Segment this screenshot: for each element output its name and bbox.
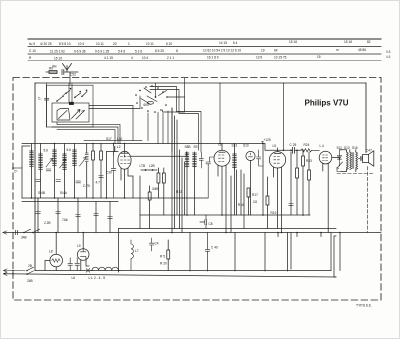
diode element D1	[338, 150, 342, 166]
svg-text:15 10: 15 10	[54, 56, 62, 60]
resistor R5	[167, 240, 170, 271]
capacitor C37	[289, 204, 293, 206]
tube V2 grid dashes	[219, 155, 225, 161]
wire detector feed vertical	[283, 83, 285, 150]
svg-text:L8: L8	[49, 250, 53, 254]
svg-text:10 4: 10 4	[142, 56, 148, 60]
svg-text:9 6 9 1 25: 9 6 9 1 25	[95, 49, 109, 53]
resistor R22	[296, 150, 299, 215]
wire x340 drop	[339, 233, 341, 271]
svg-text:S11: S11	[337, 146, 343, 150]
svg-text:2.2B: 2.2B	[44, 221, 51, 225]
tube V2 top wire	[221, 144, 223, 151]
wire x291 drop	[290, 233, 292, 270]
svg-text:34B: 34B	[21, 236, 27, 240]
capacitor C16	[46, 169, 51, 171]
switch contact dots	[56, 88, 87, 102]
output transformer core	[353, 153, 354, 169]
rectifier anode bar	[81, 249, 86, 252]
table mid line 2	[28, 53, 381, 55]
oscillator padder oval	[148, 101, 154, 104]
resistor R1	[92, 144, 95, 199]
capacitor C8	[200, 215, 207, 229]
wire padder drop	[163, 78, 185, 112]
wire S17-L10 row	[84, 140, 142, 142]
resistor R11	[157, 173, 160, 183]
svg-text:Philips V7U: Philips V7U	[305, 99, 349, 108]
coil L7	[131, 240, 133, 271]
corner wire x331	[330, 233, 332, 271]
tube V2 UCH21 envelope	[214, 150, 230, 166]
wire aerial column	[22, 146, 30, 198]
coil L2	[114, 144, 116, 156]
svg-text:5 2 6: 5 2 6	[135, 49, 142, 53]
svg-text:C 10: C 10	[29, 49, 36, 53]
main signal bus	[22, 144, 284, 151]
border tap Cb	[12, 167, 22, 169]
svg-text:C 40: C 40	[211, 246, 218, 250]
wire LTB link	[141, 169, 157, 171]
wire osc loop lower	[150, 90, 199, 151]
wire x190 drop	[189, 233, 191, 272]
svg-text:10 11: 10 11	[96, 42, 104, 46]
antenna symbol	[63, 64, 72, 73]
table mid line 1	[28, 46, 381, 48]
tube V2 pins	[218, 165, 226, 232]
svg-text:L7: L7	[135, 249, 139, 253]
capacitor C4	[150, 238, 154, 251]
svg-text:S12: S12	[344, 146, 350, 150]
gang box bottom wires	[52, 122, 120, 144]
svg-text:2B: 2B	[28, 264, 32, 268]
coil S4	[63, 144, 67, 199]
svg-text:14 15: 14 15	[219, 41, 227, 45]
tube V5 pins	[323, 163, 328, 232]
wire osc to padder	[167, 96, 185, 98]
electrolytic C45	[75, 258, 79, 271]
wire AVC column 2	[57, 198, 59, 233]
wire R11 drop	[158, 168, 160, 198]
trimmer arrow C2	[60, 160, 67, 169]
gang box output wires right	[89, 96, 140, 141]
tube V1 top wire	[124, 144, 126, 158]
rectifier pins	[81, 258, 89, 270]
svg-text:S/4A: S/4A	[60, 191, 68, 195]
svg-text:S13: S13	[232, 144, 238, 148]
svg-text:S8B: S8B	[185, 145, 191, 149]
wire x235 drop	[234, 233, 236, 272]
coil S5	[73, 144, 77, 199]
svg-text:9.8: 9.8	[386, 50, 391, 54]
speaker box	[363, 154, 369, 162]
trimmer arrow C3	[80, 158, 87, 167]
wire IF feed vertical	[219, 83, 221, 144]
tube V1 UCH21 envelope	[118, 151, 131, 169]
svg-text:4/ 20 25: 4/ 20 25	[40, 42, 52, 46]
svg-text:L2B: L2B	[149, 164, 155, 168]
electrolytic C44	[68, 258, 72, 271]
svg-text:5 4 6: 5 4 6	[118, 49, 125, 53]
svg-text:10 4: 10 4	[78, 42, 84, 46]
tube V1 cathode pins	[121, 169, 133, 199]
svg-text:5.6: 5.6	[44, 149, 49, 153]
tuning assembly shield box	[47, 85, 94, 127]
capacitor C14	[94, 214, 99, 216]
svg-text:№ 5: № 5	[29, 42, 35, 46]
inner frame top	[35, 82, 366, 84]
trimmer arrow C1	[46, 159, 53, 168]
resistor R23	[302, 150, 305, 215]
wire band column 3	[176, 120, 178, 215]
wire AVC column 4	[95, 202, 97, 233]
svg-text:R 20: R 20	[160, 262, 167, 266]
ballast lamp envelope	[50, 254, 63, 267]
capacitor C9	[76, 181, 81, 183]
resistor R12	[162, 173, 165, 183]
tube V1 grid dashes	[121, 157, 130, 164]
output transformer secondary winding	[356, 152, 358, 170]
svg-text:L6: L6	[72, 276, 76, 280]
inner frame left	[34, 83, 36, 271]
transformer top wires	[340, 150, 356, 152]
capacitor C7	[56, 180, 61, 182]
oscillator band switch contact dots	[135, 85, 168, 113]
left ground bus lower	[22, 201, 118, 203]
svg-text:R16: R16	[238, 203, 244, 207]
svg-text:L9: L9	[77, 244, 81, 248]
wire choke to rail	[91, 270, 120, 272]
wire R12 drop	[163, 168, 165, 215]
svg-text:S/4B: S/4B	[38, 191, 45, 195]
tube V5 anode wire right	[332, 157, 340, 159]
tick x321	[320, 233, 322, 237]
gang drive blob	[69, 102, 73, 104]
svg-text:12 62 10 54 2 5 10 12 6 10: 12 62 10 54 2 5 10 12 6 10	[203, 49, 241, 53]
wire AVC column 1	[37, 198, 39, 233]
svg-text:R0: R0	[49, 67, 53, 71]
wire det column	[237, 170, 245, 229]
svg-text:C30: C30	[106, 171, 112, 175]
wavechange switch wipers (upper-left)	[57, 91, 87, 102]
svg-text:600: 600	[144, 103, 150, 107]
svg-text:5.6: 5.6	[67, 148, 72, 152]
output transformer primary return	[350, 152, 352, 170]
speaker cone	[369, 151, 374, 166]
tube V3 pin	[250, 161, 252, 215]
capacitor C10	[99, 176, 104, 178]
capacitor C12	[56, 212, 61, 214]
capacitor C20	[257, 150, 263, 166]
mains switch contact 2	[27, 271, 34, 274]
wire osc drop 5	[147, 113, 149, 141]
svg-text:15 16: 15 16	[289, 40, 297, 44]
antenna lead-in wire	[46, 72, 78, 84]
output transformer primary winding	[347, 152, 349, 170]
svg-text:7A6: 7A6	[62, 218, 68, 222]
wire osc loop upper	[150, 87, 201, 153]
wire osc drop 1	[157, 113, 159, 144]
IF1 coil S8B	[185, 152, 189, 215]
svg-text:2 1 1: 2 1 1	[167, 56, 174, 60]
coil S1	[30, 144, 34, 199]
tube V4 grid dashes	[274, 156, 280, 163]
arrow +125	[262, 142, 264, 144]
inner frame right	[365, 83, 367, 153]
svg-text:R24: R24	[304, 143, 310, 147]
resistor R17	[247, 188, 250, 215]
feedback box left wire	[118, 229, 120, 273]
bottom rail upper	[35, 270, 331, 272]
tube V3 diode envelope	[246, 151, 255, 160]
svg-text:13 9: 13 9	[256, 55, 262, 59]
bus main long	[3, 232, 381, 234]
mains switch dots	[12, 270, 28, 275]
svg-text:C8: C8	[209, 222, 213, 226]
svg-text:C47: C47	[366, 148, 372, 152]
svg-text:16 1 8 9: 16 1 8 9	[207, 56, 219, 60]
IF1 coil S9	[193, 152, 197, 215]
table bottom line	[28, 60, 381, 62]
ballast lamp base tick	[55, 267, 57, 271]
wire osc drop 2	[162, 114, 164, 144]
gram input arrow	[3, 231, 7, 234]
svg-text:S10: S10	[243, 144, 249, 148]
rectifier cathode hook	[81, 257, 86, 259]
wire band column 5	[181, 158, 183, 233]
tuning gang rotor plate	[57, 109, 70, 121]
svg-text:m: m	[336, 48, 339, 52]
capacitor C5	[36, 180, 41, 182]
coil S3	[53, 144, 57, 199]
svg-text:4.6: 4.6	[386, 55, 391, 59]
mains terminal arrows	[4, 269, 26, 276]
svg-text:4 1 15: 4 1 15	[104, 56, 113, 60]
svg-text:R19: R19	[271, 211, 277, 215]
tube V4 top wire	[277, 148, 279, 152]
contact dots gram	[23, 232, 34, 234]
dashed speaker frame horizontal	[337, 173, 374, 175]
tube V5 envelope	[319, 151, 332, 164]
svg-text:L1- 2 - 4 - 5: L1- 2 - 4 - 5	[89, 276, 106, 280]
bottom rail lower	[4, 274, 337, 277]
coil S2	[39, 144, 43, 199]
wire switch to lamp	[45, 261, 50, 271]
speaker coupling capacitor C47	[358, 156, 362, 160]
ballast lamp filament	[52, 259, 60, 262]
wire det column b	[231, 170, 241, 233]
junction dots main bus	[54, 143, 264, 145]
svg-text:TYP.6.6.6.: TYP.6.6.6.	[356, 304, 372, 308]
svg-text:+125: +125	[264, 138, 271, 142]
wire x287 drop	[287, 233, 289, 272]
svg-text:6 4: 6 4	[233, 41, 238, 45]
svg-text:64: 64	[274, 48, 278, 52]
tube V2 grid cap wire	[206, 157, 214, 198]
capacitor C gram	[16, 230, 18, 234]
corner wire x334	[334, 236, 336, 277]
svg-text:L10: L10	[117, 137, 123, 141]
svg-text:R13: R13	[176, 190, 182, 194]
svg-text:C52: C52	[70, 73, 76, 77]
wire AF coupling	[262, 144, 264, 216]
capacitor C40	[205, 233, 209, 272]
capacitor C15	[108, 217, 113, 219]
resistor R19	[266, 177, 269, 229]
tube V4 anode bar	[275, 153, 281, 155]
svg-text:24B: 24B	[27, 279, 33, 283]
capacitor C17	[199, 152, 203, 168]
bus heater	[119, 228, 337, 230]
junction dots detector	[283, 150, 304, 152]
wire screen column	[290, 152, 292, 215]
wire band from switch column 1	[171, 108, 173, 233]
svg-text:S16: S16	[352, 146, 358, 150]
svg-text:S17: S17	[106, 137, 112, 141]
resistor R13	[148, 186, 151, 229]
left ground bus	[22, 197, 208, 199]
tuning gang box	[52, 103, 89, 122]
margin note right	[386, 50, 391, 59]
wire band column 4	[179, 150, 181, 229]
svg-text:15: 15	[317, 55, 321, 59]
tube V4 pins	[274, 167, 282, 233]
svg-text:4: 4	[131, 56, 133, 60]
table row 1 values	[29, 40, 371, 46]
svg-text:C6: C6	[253, 200, 257, 204]
svg-text:10 11: 10 11	[146, 42, 154, 46]
svg-text:R23: R23	[306, 159, 312, 163]
trimmer arrow 1	[72, 110, 81, 119]
contact dot LTB	[145, 169, 154, 171]
svg-text:C 25: C 25	[290, 143, 297, 147]
svg-text:45 86: 45 86	[358, 48, 366, 52]
wire x265 drop	[264, 233, 266, 272]
ground bus dots	[31, 197, 126, 199]
wire band column 6	[184, 162, 186, 215]
svg-text:20: 20	[113, 42, 117, 46]
capacitor C11	[36, 212, 41, 214]
svg-text:L5: L5	[273, 144, 277, 148]
svg-text:8 5 25: 8 5 25	[155, 49, 164, 53]
mains switch contact 1	[27, 267, 34, 270]
switch gram	[24, 229, 40, 232]
wire band column 2	[174, 116, 176, 229]
wire switch feed vertical	[155, 83, 157, 97]
svg-text:C.75: C.75	[83, 184, 90, 188]
capacitor C30	[111, 155, 116, 198]
capacitor C13	[76, 215, 81, 217]
wire osc drop 4	[171, 108, 173, 152]
table top line	[28, 38, 381, 40]
svg-text:S9: S9	[194, 145, 198, 149]
svg-text:L 4: L 4	[320, 144, 325, 148]
svg-text:6 10: 6 10	[166, 42, 172, 46]
transformer bottom wires	[341, 169, 356, 172]
trimmer arrow 2	[76, 111, 85, 120]
dashed speaker frame vertical	[367, 167, 369, 233]
wire AVC column 5	[109, 202, 111, 233]
capacitor Ca	[45, 83, 49, 127]
tick x278	[277, 233, 279, 237]
resistor R0	[49, 71, 57, 74]
rectifier tube V6 envelope	[77, 249, 89, 261]
wire V1 grid to left rail	[106, 152, 118, 199]
tube V5 grid dashes	[323, 155, 328, 161]
svg-text:15 16: 15 16	[344, 40, 352, 44]
wire pair antenna to gang	[69, 84, 72, 102]
junction dots buses	[55, 214, 340, 233]
bus HT mid	[140, 214, 310, 216]
svg-text:R 5: R 5	[160, 255, 165, 259]
wire af column	[139, 176, 141, 229]
svg-text:8: 8	[176, 49, 178, 53]
tube V3 cathode	[249, 153, 253, 157]
svg-text:10 15 75: 10 15 75	[274, 55, 287, 59]
resistor R3	[85, 144, 88, 199]
svg-text:1: 1	[128, 42, 130, 46]
oscillator switch wipers	[141, 88, 167, 105]
tube V4 UBL21 envelope	[269, 152, 285, 168]
resistor R2	[100, 144, 103, 199]
capacitor C52	[62, 70, 64, 75]
svg-text:R17: R17	[252, 193, 258, 197]
svg-text:4.7: 4.7	[96, 181, 101, 185]
outer dashed border	[13, 78, 381, 301]
trimmer arrow output	[337, 162, 343, 172]
svg-text:8 5 8 10: 8 5 8 10	[59, 42, 71, 46]
svg-text:LTB: LTB	[140, 164, 146, 168]
tick x297	[296, 233, 298, 237]
svg-text:11 25 1 92: 11 25 1 92	[50, 49, 65, 53]
rectifier plate wire to HT	[82, 233, 84, 249]
wire AVC column 3	[77, 198, 79, 233]
IF2 coil S13	[233, 144, 237, 216]
choke L6 winding	[92, 267, 118, 270]
tube V2 anode bar	[219, 151, 225, 153]
wire osc drop 3	[167, 111, 169, 144]
fuse cross	[86, 269, 90, 273]
tube V1 anode bar	[121, 152, 128, 154]
resistor R25	[308, 152, 311, 215]
wire lamp to heater bus	[55, 233, 57, 255]
wire V1 anode to IF1	[131, 152, 187, 156]
svg-text:C4: C4	[155, 242, 159, 246]
svg-text:82: 82	[367, 40, 371, 44]
table row 2 values	[29, 48, 366, 54]
svg-text:L2: L2	[117, 145, 121, 149]
svg-text:L3: L3	[218, 143, 222, 147]
table row 3 values	[29, 55, 321, 60]
svg-text:9 6 9 36: 9 6 9 36	[74, 49, 86, 53]
svg-text:19: 19	[261, 49, 265, 53]
resistor R24	[301, 149, 319, 152]
svg-text:3/4B: 3/4B	[152, 187, 159, 191]
capacitor C25	[284, 147, 301, 153]
